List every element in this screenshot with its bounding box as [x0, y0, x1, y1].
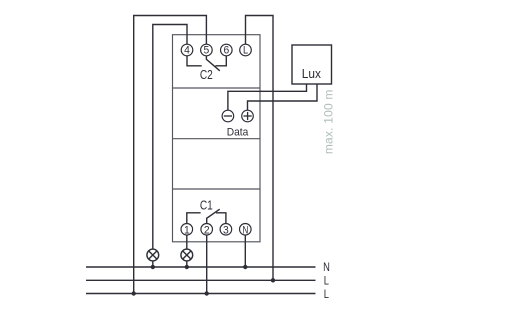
svg-text:N: N [242, 224, 248, 237]
svg-text:6: 6 [223, 44, 229, 56]
svg-text:1: 1 [184, 224, 190, 236]
svg-text:3: 3 [223, 224, 229, 236]
svg-text:Lux: Lux [302, 67, 322, 82]
svg-text:L: L [243, 45, 248, 57]
svg-text:4: 4 [184, 44, 190, 56]
svg-text:L: L [324, 275, 329, 288]
svg-text:2: 2 [204, 224, 210, 236]
svg-text:C1: C1 [200, 198, 213, 212]
svg-text:L: L [324, 288, 329, 301]
svg-text:C2: C2 [200, 68, 213, 82]
svg-text:max. 100 m: max. 100 m [321, 89, 335, 154]
svg-text:Data: Data [227, 126, 249, 138]
svg-text:5: 5 [204, 44, 210, 56]
svg-text:N: N [323, 261, 330, 274]
